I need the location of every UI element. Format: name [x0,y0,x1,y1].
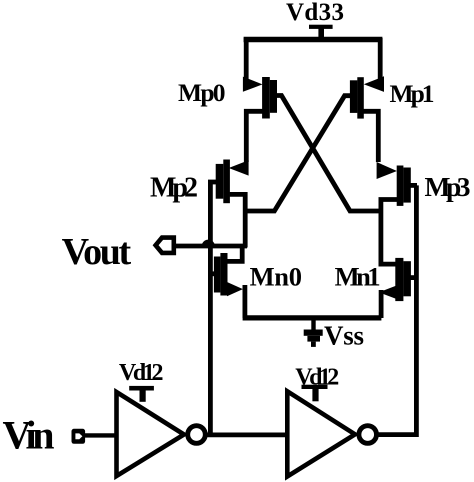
transistor Mp2 [208,160,249,248]
svg-text:Mp1: Mp1 [390,79,435,108]
inverter U2 triangle [287,391,355,476]
wire inverter1 output to inverter2 input [206,432,288,437]
svg-text:Mp2: Mp2 [150,172,198,203]
inverter U2 output bubble [359,426,377,444]
wire Mp1 gate cross-couple diagonal to left node [247,96,351,211]
inverter U1 output bubble [188,426,206,444]
wire Vss rail [243,315,382,320]
terminal Vout arrow [156,238,247,253]
transistor Mn0 [208,246,245,318]
svg-text:Mn0: Mn0 [250,261,302,291]
transistor Mp0 [243,77,277,162]
svg-text:Vout: Vout [62,231,132,273]
transistor Mp3 [377,162,417,264]
power symbol Vd12 T-bar inverter2 [302,385,328,402]
power symbol Vd33 T-bar [309,25,333,38]
wire left gate net vertical (inverter1 output to Mp2/Mn0 gates) [208,180,213,435]
wire Vd33 rail [244,37,383,43]
svg-text:Vss: Vss [324,321,364,351]
ground symbol Vss [304,318,323,347]
inverter U1 triangle [117,392,185,476]
power symbol Vd12 T-bar inverter1 [129,386,154,402]
wire Mp0 gate cross-couple diagonal to right node [277,96,382,212]
wire right gate net vertical (inverter2 output to Mp3/Mn1 gates) [379,185,417,434]
wire Vin to inverter1 [84,433,117,437]
terminal Vin input [72,429,86,444]
wire Mp1 source drop [378,38,383,79]
transistor Mp1 [350,76,384,162]
wire hop over left vertical [202,240,215,247]
transistor Mn1 [379,258,417,318]
svg-text:Mn1: Mn1 [335,262,381,292]
svg-text:Mp3: Mp3 [425,171,471,202]
svg-text:Vin: Vin [3,413,55,458]
svg-text:Vd33: Vd33 [286,0,344,26]
svg-text:Mp0: Mp0 [178,78,226,107]
svg-text:Vd12: Vd12 [119,360,164,386]
wire Mp0 source drop [244,38,249,79]
